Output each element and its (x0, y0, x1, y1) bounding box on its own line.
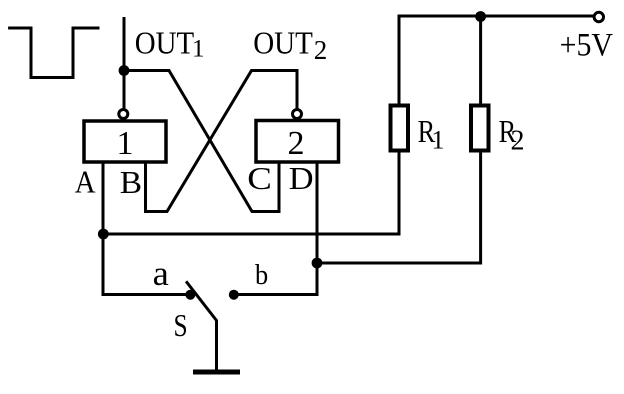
label R2 (499, 113, 525, 157)
wire R2 top lead (479, 16, 482, 106)
wire OUT2 to gate1 input B (146, 71, 298, 212)
svg-text:2: 2 (314, 35, 328, 65)
input pulse waveform (10, 28, 98, 78)
svg-text:1: 1 (192, 36, 205, 63)
label OUT1 (135, 24, 205, 62)
resistor R1 body (391, 106, 409, 151)
svg-text:2: 2 (511, 126, 525, 157)
svg-text:C: C (247, 160, 272, 196)
node R2/D junction dot (312, 258, 323, 269)
resistor R2 body (471, 106, 489, 151)
wire OUT1 to gate2 input C (124, 71, 279, 212)
node +5V rail junction dot (475, 11, 486, 22)
wire R2 bottom lead to node (317, 151, 481, 264)
svg-text:B: B (120, 164, 142, 200)
svg-text:A: A (75, 164, 96, 200)
wire R1 top lead and +5V rail (399, 16, 593, 106)
wire R1 branch (398, 151, 401, 235)
node A junction dot (98, 229, 109, 240)
svg-text:b: b (255, 259, 268, 291)
ground (193, 370, 240, 375)
wire OUT2 vertical (296, 71, 299, 109)
svg-text:OUT: OUT (135, 24, 195, 60)
wire OUT1 vertical (123, 19, 126, 109)
switch S arm (187, 283, 217, 371)
label R1 (418, 113, 445, 155)
svg-text:a: a (153, 254, 170, 293)
gate U2 inversion bubble (293, 110, 302, 119)
wire gate1 input A down (103, 162, 190, 295)
svg-text:2: 2 (288, 125, 305, 162)
gate U1 inversion bubble (119, 110, 128, 119)
svg-text:1: 1 (117, 125, 134, 162)
svg-text:OUT: OUT (253, 25, 313, 61)
node OUT1 junction dot (119, 65, 130, 76)
wire gate2 input D down to contact b (234, 162, 317, 295)
switch contact b dot (229, 290, 239, 300)
svg-text:+5V: +5V (560, 28, 614, 64)
label OUT2 (253, 25, 327, 66)
wire bottom rail A to R1 (103, 233, 399, 236)
gate U2 box (256, 121, 339, 163)
svg-text:S: S (174, 307, 188, 343)
switch contact a dot (185, 290, 195, 300)
gate U1 box (84, 121, 166, 162)
svg-text:1: 1 (432, 126, 445, 155)
+5V open terminal (594, 12, 603, 21)
svg-text:D: D (289, 160, 314, 196)
